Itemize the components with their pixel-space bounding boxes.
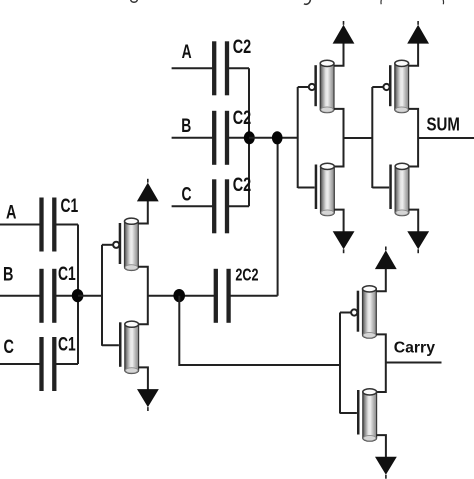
svg-text:C2: C2 bbox=[233, 36, 251, 57]
svg-text:B: B bbox=[3, 264, 13, 285]
svg-text:C1: C1 bbox=[58, 263, 76, 285]
svg-text:C1: C1 bbox=[61, 195, 79, 217]
svg-text:C2: C2 bbox=[233, 107, 251, 128]
svg-text:C2: C2 bbox=[233, 174, 251, 195]
svg-text:B: B bbox=[181, 115, 191, 137]
svg-text:Carry: Carry bbox=[394, 340, 435, 357]
svg-text:C: C bbox=[4, 336, 14, 357]
svg-text:A: A bbox=[182, 41, 192, 63]
svg-text:C: C bbox=[182, 183, 192, 205]
svg-text:C1: C1 bbox=[58, 333, 76, 355]
svg-text:SUM: SUM bbox=[427, 114, 460, 135]
svg-text:A: A bbox=[6, 202, 16, 223]
svg-text:2C2: 2C2 bbox=[235, 265, 258, 285]
